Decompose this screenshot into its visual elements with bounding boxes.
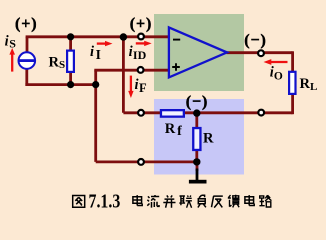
caption char LIU (flow) bbox=[147, 195, 159, 208]
wire left source drop bbox=[26, 37, 29, 53]
svg-text:Rf: Rf bbox=[165, 121, 182, 139]
wire ground stem bbox=[196, 162, 199, 171]
wire bottom-left rail bbox=[25, 83, 97, 85]
svg-text:(+): (+) bbox=[130, 15, 152, 32]
arrow iF bbox=[128, 76, 133, 98]
op-amp U1 bbox=[169, 27, 227, 77]
resistor Rs bbox=[67, 51, 74, 72]
arrow iID bbox=[136, 41, 152, 46]
ground bbox=[189, 169, 207, 184]
caption char LIAN (connect) bbox=[179, 196, 192, 208]
wire below current source bbox=[25, 69, 28, 87]
svg-text:(+): (+) bbox=[15, 15, 37, 32]
arrow iO bbox=[264, 59, 288, 65]
caption char LU (road) bbox=[259, 195, 271, 207]
resistor Rf bbox=[161, 110, 184, 117]
wire R vertical bbox=[195, 113, 198, 162]
node dot noninverting bottom bbox=[92, 81, 99, 88]
terminal inverting input bbox=[138, 34, 144, 40]
wire ground rail bbox=[96, 160, 197, 163]
wire feedback vertical iF bbox=[122, 37, 125, 113]
caption char DIAN (electric) bbox=[133, 195, 142, 205]
wire feedback rail bbox=[123, 111, 292, 114]
node dot R top bbox=[193, 109, 200, 116]
caption char DIAN2 (electric) bbox=[245, 195, 254, 205]
caption char KUI (feedback) bbox=[228, 195, 240, 208]
node dot Rs bottom bbox=[67, 81, 74, 88]
caption char BING (parallel) bbox=[163, 195, 175, 207]
svg-text:R: R bbox=[203, 131, 214, 147]
current source iS bbox=[19, 52, 36, 69]
node dot Rs top bbox=[67, 33, 74, 40]
node dot feedback top bbox=[120, 33, 127, 40]
wire top rail bbox=[26, 35, 169, 38]
svg-text:iI: iI bbox=[90, 44, 101, 62]
svg-text:(−): (−) bbox=[186, 94, 208, 111]
caption char TU (figure) bbox=[73, 196, 85, 208]
terminal feedback left bbox=[138, 110, 144, 116]
wire noninverting input rail bbox=[94, 69, 168, 72]
caption char FAN (reverse) bbox=[212, 196, 223, 208]
caption char FU (negative) bbox=[198, 195, 206, 207]
terminal feedback right bbox=[258, 110, 264, 116]
amplifier block A (green box) bbox=[154, 14, 244, 91]
terminal ground rail bbox=[138, 159, 144, 165]
terminal noninverting input bbox=[138, 67, 144, 73]
feedback network block F (lavender box) bbox=[154, 99, 244, 175]
svg-text:iS: iS bbox=[5, 33, 17, 50]
resistor R bbox=[193, 128, 200, 150]
svg-text:(−): (−) bbox=[244, 32, 266, 49]
resistor RL bbox=[289, 72, 295, 94]
svg-text:7.1.3: 7.1.3 bbox=[89, 191, 121, 212]
wire through Rs bbox=[69, 37, 72, 85]
arrow iI bbox=[97, 41, 113, 46]
wire noninverting vertical bbox=[94, 70, 97, 162]
wire output rail bbox=[227, 51, 293, 54]
wire RL vertical bbox=[291, 51, 294, 114]
terminal output bbox=[258, 50, 264, 56]
arrow iS bbox=[9, 48, 15, 72]
node dot R bottom / ground bbox=[193, 158, 200, 165]
